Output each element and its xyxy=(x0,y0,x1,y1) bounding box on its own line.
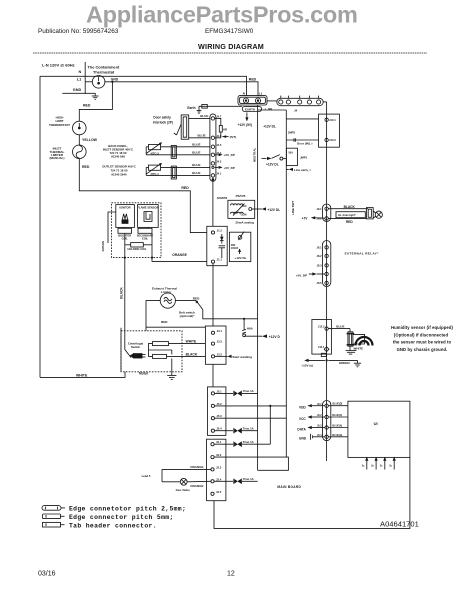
wire GND stub with ground xyxy=(62,93,95,96)
svg-text:RED: RED xyxy=(193,296,200,300)
svg-text:J2.5: J2.5 xyxy=(216,490,222,494)
svg-text:N: N xyxy=(243,91,245,95)
terminal earth box xyxy=(242,106,261,111)
pull-up resistor HR xyxy=(215,118,227,137)
connector J3 box xyxy=(205,326,226,364)
gas valve internal wires xyxy=(125,227,152,257)
svg-text:J10.2: J10.2 xyxy=(329,138,336,142)
svg-text:Publication No: 5995674263: Publication No: 5995674263 xyxy=(38,28,119,35)
svg-text:YELLOW: YELLOW xyxy=(82,138,98,142)
wire orange rail to J1.1 xyxy=(152,258,207,262)
svg-text:EARTH: EARTH xyxy=(245,107,255,111)
svg-text:03/16: 03/16 xyxy=(38,571,56,578)
wire strip to bus xyxy=(323,101,326,103)
start winding resistor xyxy=(153,354,167,358)
svg-text:J2.1: J2.1 xyxy=(216,440,222,444)
header rule xyxy=(33,52,427,54)
svg-text:Limiter: Limiter xyxy=(161,290,172,294)
J1 internal zener and capacitor xyxy=(219,234,225,258)
svg-text:16A: 16A xyxy=(288,150,293,154)
triac on J5.1 xyxy=(215,389,258,396)
arrow (IVT) xyxy=(222,135,236,139)
arrow +7V xyxy=(302,216,325,220)
svg-text:ORANGE: ORANGE xyxy=(172,253,187,257)
svg-text:COM: COM xyxy=(241,214,247,217)
wire high-limit to inlet limiter xyxy=(78,135,80,145)
label HIGH LIMIT THERMOSTAT xyxy=(49,116,70,127)
thermostat (containment) circle xyxy=(92,76,105,89)
svg-text:BLUE: BLUE xyxy=(192,163,200,167)
svg-text:VCC: VCC xyxy=(299,417,306,421)
door safety interlock connector xyxy=(174,115,189,139)
svg-text:GND: GND xyxy=(299,437,307,441)
wire transformer to +12V DL arrow xyxy=(252,207,280,211)
svg-text:BLUE: BLUE xyxy=(200,114,208,118)
svg-text:+12V D: +12V D xyxy=(269,335,281,339)
svg-text:+12V (5V): +12V (5V) xyxy=(238,123,252,127)
UI bottom arrows xyxy=(365,457,396,470)
svg-text:IGNITOR: IGNITOR xyxy=(119,205,130,209)
humidity sensor note text xyxy=(391,325,453,352)
text block outlet sensor xyxy=(102,165,136,177)
svg-text:J3.1: J3.1 xyxy=(217,329,223,333)
wire L1 from thermostat to terminal block xyxy=(105,82,258,96)
label The Containment Thermostat xyxy=(88,65,120,75)
svg-text:N: N xyxy=(79,70,82,74)
svg-text:Thermostat: Thermostat xyxy=(93,69,115,74)
humidity sensor body xyxy=(347,332,365,346)
svg-text:WHITE: WHITE xyxy=(354,346,364,350)
arrow -15V_DP xyxy=(215,166,235,170)
relay box right of J1 xyxy=(229,232,250,262)
svg-text:2x: 2x xyxy=(371,464,374,467)
svg-text:(MANUAL): (MANUAL) xyxy=(50,156,65,160)
svg-text:J3.3: J3.3 xyxy=(217,352,223,356)
text block back panel inlet sensor xyxy=(103,144,134,158)
svg-text:Door (IN)_r: Door (IN)_r xyxy=(297,141,313,145)
svg-text:NEUTRAL: NEUTRAL xyxy=(253,148,257,162)
arrow DATA xyxy=(297,426,325,432)
label BLUE door wires xyxy=(198,114,209,137)
connector J12 box xyxy=(312,320,332,355)
UI arrow labels xyxy=(362,464,393,467)
wire J1.1 to J3 top xyxy=(212,263,214,326)
svg-text:BLACK: BLACK xyxy=(186,352,198,356)
svg-text:J12.2: J12.2 xyxy=(318,324,325,328)
NTC-2 edge connector xyxy=(171,146,176,159)
svg-text:J2.4: J2.4 xyxy=(216,477,222,481)
svg-text:(optional)*: (optional)* xyxy=(180,314,196,318)
svg-text:91340 599: 91340 599 xyxy=(111,154,125,158)
neutral bus vertical xyxy=(257,105,259,470)
svg-text:J8.5: J8.5 xyxy=(317,281,323,285)
legend symbol edge connector 2.5mm xyxy=(42,506,65,511)
high limit thermostat circle xyxy=(73,121,87,135)
svg-text:BLUE(D): BLUE(D) xyxy=(332,403,342,406)
svg-text:2x: 2x xyxy=(362,464,365,467)
holding coil xyxy=(128,243,147,252)
transformer PS box xyxy=(228,200,255,218)
junction dot on L1 wire xyxy=(111,81,113,83)
arrow Line early_r xyxy=(286,168,311,172)
wire red rail inlet limiter to J1.2 xyxy=(79,159,207,233)
inlet thermal limiter circle xyxy=(73,145,87,159)
svg-text:BLUE: BLUE xyxy=(198,134,206,138)
svg-text:+7V: +7V xyxy=(302,216,309,220)
J3 pin labels xyxy=(217,329,223,357)
labels BLUE NTC-1 xyxy=(192,163,200,175)
svg-text:2x: 2x xyxy=(389,464,392,467)
svg-text:ORANGE: ORANGE xyxy=(190,484,203,488)
J1 pin labels xyxy=(217,228,223,261)
svg-text:interlock (2P): interlock (2P) xyxy=(153,120,173,124)
J4 pin labels xyxy=(216,115,222,176)
svg-text:+12V DL: +12V DL xyxy=(267,208,280,212)
svg-text:RED: RED xyxy=(83,104,91,108)
svg-text:HOLDING COIL: HOLDING COIL xyxy=(128,247,147,251)
legend text lines xyxy=(69,506,186,530)
svg-text:25mA analog: 25mA analog xyxy=(235,221,254,225)
drum light label box xyxy=(336,212,365,218)
arrow VCC xyxy=(299,415,325,421)
svg-text:L1: L1 xyxy=(259,91,263,95)
wire black drop to centrifugal switch xyxy=(124,258,126,350)
exhaust thermal limiter circle xyxy=(160,293,175,308)
connector J10 box xyxy=(319,114,340,147)
svg-text:BLUE: BLUE xyxy=(336,324,344,328)
wires NTC-1 to J4 xyxy=(146,167,210,175)
svg-text:RED: RED xyxy=(82,165,90,169)
wire J5.2 to line bus xyxy=(215,405,287,407)
svg-text:the sensor must be wired to: the sensor must be wired to xyxy=(393,340,452,345)
J9 pin labels xyxy=(317,207,323,221)
humidity waves xyxy=(356,337,373,346)
svg-text:WIRING DIAGRAM: WIRING DIAGRAM xyxy=(198,42,264,51)
junction dot mid bus xyxy=(269,405,271,407)
svg-text:Triac 1A: Triac 1A xyxy=(243,477,254,481)
motor winding wires xyxy=(149,344,206,372)
svg-text:BLACK: BLACK xyxy=(120,287,124,299)
wire J9.1 to light xyxy=(328,208,368,210)
svg-text:BLUE(C): BLUE(C) xyxy=(332,414,342,417)
main winding resistor xyxy=(153,342,169,346)
svg-text:DATA: DATA xyxy=(297,427,306,431)
left border wire xyxy=(39,76,41,377)
svg-text:J12.1: J12.1 xyxy=(318,345,325,349)
svg-text:GREEN: GREEN xyxy=(339,361,350,365)
booster coil xyxy=(118,228,132,240)
wire limiter left to J3.1 row xyxy=(146,301,205,331)
svg-text:VDD: VDD xyxy=(299,406,306,410)
svg-text:WHITE: WHITE xyxy=(76,373,88,377)
wire lamp to J2.4 xyxy=(187,480,211,483)
svg-text:J4.1: J4.1 xyxy=(216,172,222,176)
svg-text:5V0: 5V0 xyxy=(242,205,247,208)
svg-text:J3.2: J3.2 xyxy=(217,340,223,344)
light connector xyxy=(366,208,373,219)
svg-text:J4: J4 xyxy=(294,109,298,113)
ground under humidity sensor xyxy=(346,346,357,354)
svg-text:RED: RED xyxy=(346,220,353,224)
svg-text:WHITE: WHITE xyxy=(186,340,197,344)
J12 pin labels xyxy=(318,324,325,349)
labels BLUE NTC-2 xyxy=(192,143,200,155)
arrow +12V D xyxy=(262,334,267,338)
connector J4 column xyxy=(210,114,216,181)
fuse H6A xyxy=(242,319,246,337)
svg-text:Start winding: Start winding xyxy=(232,355,252,359)
svg-text:J9.1: J9.1 xyxy=(317,207,323,211)
NTC-1 thermistor xyxy=(146,163,162,176)
svg-text:+5V_DP: +5V_DP xyxy=(224,166,235,170)
svg-text:JMP2: JMP2 xyxy=(288,130,296,134)
svg-text:Triac 1A: Triac 1A xyxy=(243,440,254,444)
svg-text:+5V_DP: +5V_DP xyxy=(296,273,307,277)
5-pin terminal strip xyxy=(277,96,323,106)
svg-text:J9.2: J9.2 xyxy=(317,217,323,221)
svg-text:Humidity sensor (if equipped): Humidity sensor (if equipped) xyxy=(391,325,453,330)
switch to JMP1 xyxy=(262,155,287,161)
light bulb xyxy=(373,211,382,218)
svg-text:EXTERNAL RELAY*: EXTERNAL RELAY* xyxy=(345,252,380,256)
svg-text:THERMOSTAT: THERMOSTAT xyxy=(49,123,70,127)
junction dot under J12 xyxy=(325,359,327,361)
spark electrode wire xyxy=(108,212,116,243)
arrow +5V_DP xyxy=(215,153,235,157)
triac on J2.4 xyxy=(214,477,258,484)
J2 pin labels xyxy=(216,440,222,494)
svg-text:AppliancePartsPros.com: AppliancePartsPros.com xyxy=(86,2,358,28)
label Exhaust Thermal Limiter xyxy=(152,286,177,294)
svg-text:400/050: 400/050 xyxy=(217,196,228,200)
J10 pin labels xyxy=(329,118,336,142)
arrow Start winding xyxy=(215,355,253,359)
UI box xyxy=(348,401,410,457)
svg-text:J1.1: J1.1 xyxy=(217,258,223,262)
arrow +5V_DP J8.4 xyxy=(296,272,325,277)
svg-text:LINE SWT: LINE SWT xyxy=(291,201,295,215)
wire bus to J10.2 with break xyxy=(286,138,318,141)
svg-text:Tab header connector.: Tab header connector. xyxy=(69,522,157,529)
wire earth line to terminal earth box xyxy=(199,105,242,107)
ground symbol at power cord xyxy=(92,96,99,99)
connector J8 xyxy=(323,241,331,287)
svg-text:Door safety: Door safety xyxy=(153,115,171,119)
wire J4.1 down to J1 xyxy=(212,177,215,226)
svg-text:BLUE: BLUE xyxy=(192,143,200,147)
junction dots on gas valve bottom xyxy=(124,257,153,259)
svg-text:J4.3: J4.3 xyxy=(216,160,222,164)
svg-text:91340 2940: 91340 2940 xyxy=(111,173,127,177)
svg-text:SPARK: SPARK xyxy=(101,240,105,251)
svg-text:PS/5V6: PS/5V6 xyxy=(236,194,246,198)
earth label and symbol xyxy=(187,106,201,113)
svg-text:100VA: 100VA xyxy=(231,247,239,250)
svg-text:J8.1: J8.1 xyxy=(317,245,323,249)
triac on J2.1 xyxy=(214,440,270,447)
triac on J5.4 xyxy=(215,427,258,434)
wire belt switch to neutral bus xyxy=(203,310,258,319)
motor box left edge solid xyxy=(120,328,122,372)
labels BLUE on UI wires xyxy=(332,403,342,437)
svg-text:2x: 2x xyxy=(380,464,383,467)
svg-text:MAIN BOARD: MAIN BOARD xyxy=(277,485,301,489)
svg-text:J2.2: J2.2 xyxy=(216,453,222,457)
svg-text:Gas Valve: Gas Valve xyxy=(176,488,191,492)
svg-text:A04641701: A04641701 xyxy=(380,520,419,529)
gas valve lamp xyxy=(180,478,187,485)
svg-text:L1: L1 xyxy=(77,78,81,82)
HS glyph under J12.1 xyxy=(321,353,326,356)
wire bus to J10.1 xyxy=(286,118,318,120)
wire J12.2 to humidity sensor xyxy=(328,329,350,332)
svg-text:EFMG3417SIW0: EFMG3417SIW0 xyxy=(205,28,254,35)
label Belt switch (optional) xyxy=(179,310,195,318)
GND battery symbol xyxy=(299,434,325,441)
wire terminal block to strip xyxy=(267,100,277,102)
svg-text:(IVT): (IVT) xyxy=(230,135,237,139)
junction dot fuse tap xyxy=(243,318,245,320)
wire GREEN to ground xyxy=(328,360,361,366)
svg-text:+12V DL: +12V DL xyxy=(263,125,276,129)
J8 pin labels xyxy=(317,245,323,285)
gas valve assembly dashed box xyxy=(112,203,162,258)
wire J2.3 orange to gas valve xyxy=(162,469,211,481)
svg-text:GND: GND xyxy=(73,88,82,92)
svg-text:UI: UI xyxy=(374,421,378,426)
wires J6 to UI box xyxy=(328,406,348,437)
belt switch xyxy=(196,301,203,310)
centrifugal switch xyxy=(125,350,146,359)
terminal block xyxy=(238,96,267,105)
svg-text:J5.4: J5.4 xyxy=(216,427,222,431)
ignitor sub-box xyxy=(116,205,135,228)
svg-text:JMP1: JMP1 xyxy=(300,155,308,159)
svg-text:12: 12 xyxy=(227,571,235,578)
NTC-2 thermistor xyxy=(146,142,162,155)
svg-text:BLUE: BLUE xyxy=(192,151,200,155)
flame sensor sub-box xyxy=(137,205,158,228)
power entry vertical line xyxy=(84,62,86,94)
NTC-1 edge connector xyxy=(171,166,176,179)
svg-text:J4.5: J4.5 xyxy=(216,143,222,147)
svg-text:COIL: COIL xyxy=(142,237,149,241)
wire junction down to high-limit branch xyxy=(79,82,112,121)
svg-text:Switch: Switch xyxy=(131,345,141,349)
svg-text:Edge connetotor pitch 2,5mm;: Edge connetotor pitch 2,5mm; xyxy=(69,506,186,513)
svg-text:+5V_DP: +5V_DP xyxy=(224,153,235,157)
terminal labels N L1 xyxy=(243,91,263,95)
J4 pins xyxy=(211,117,214,177)
arrow down +12V (5V) xyxy=(238,112,252,126)
svg-text:Earth: Earth xyxy=(187,106,195,110)
svg-text:+12V DL: +12V DL xyxy=(235,256,247,260)
svg-text:Triac 1A: Triac 1A xyxy=(243,389,254,393)
svg-text:Motor: Motor xyxy=(139,371,149,375)
svg-text:FLAME SENSOR: FLAME SENSOR xyxy=(137,205,158,209)
svg-text:+15V (y): +15V (y) xyxy=(301,363,313,367)
arrow VDD xyxy=(299,404,325,410)
wire L1 into thermostat xyxy=(85,81,92,83)
svg-text:J5.3: J5.3 xyxy=(216,414,222,418)
svg-text:J5.2: J5.2 xyxy=(216,402,222,406)
J5 pin labels xyxy=(216,389,222,430)
wire door interlock to J4 pins xyxy=(189,118,210,137)
svg-text:(Optional) If disconnected: (Optional) If disconnected xyxy=(394,332,449,337)
svg-text:Edge connector pitch 5mm;: Edge connector pitch 5mm; xyxy=(69,514,174,521)
connector J9 xyxy=(323,204,331,222)
secondary coil xyxy=(137,228,154,240)
svg-text:BLUE: BLUE xyxy=(192,171,200,175)
svg-text:Line early_r: Line early_r xyxy=(294,168,312,172)
mid bus vertical J5.2 to J2.1 xyxy=(269,406,271,444)
wire N: left border top to terminal N xyxy=(40,76,247,95)
svg-text:BLUE(A): BLUE(A) xyxy=(332,425,342,428)
legend symbol tab header connector xyxy=(43,522,65,527)
wire J2 bottom to bottom rail xyxy=(214,457,410,528)
connector J6 xyxy=(323,401,331,441)
svg-text:J1.2: J1.2 xyxy=(217,228,223,232)
wire J2.2 to right bend xyxy=(214,457,288,470)
wire fuse to +12V D arrow xyxy=(246,335,263,337)
svg-text:ORANGE: ORANGE xyxy=(190,465,203,469)
wires NTC-2 to J4 xyxy=(146,147,210,155)
labels above transformer xyxy=(217,194,246,200)
wire J3 bottom to J5 top xyxy=(212,364,214,387)
legend symbol edge connector 5mm xyxy=(43,514,65,519)
main right bus vertical xyxy=(326,102,328,461)
svg-text:J10.1: J10.1 xyxy=(329,118,336,122)
label Centrifugal Switch xyxy=(128,341,143,349)
svg-text:GND by chassis ground.: GND by chassis ground. xyxy=(397,347,448,352)
bottom rail wire white xyxy=(40,372,125,378)
label INLET THERMAL LIMITER (MANUAL) xyxy=(50,147,65,161)
ground symbol under motor xyxy=(167,372,176,380)
connector J1 box xyxy=(207,226,227,265)
svg-text:RED: RED xyxy=(249,78,257,82)
connector J2 box xyxy=(207,439,226,501)
wire J9.2 return xyxy=(328,217,366,219)
arrow +15V left xyxy=(301,359,325,368)
svg-text:Int. drum light*: Int. drum light* xyxy=(338,214,356,217)
svg-text:RED: RED xyxy=(181,186,189,190)
svg-text:RED: RED xyxy=(161,320,168,324)
svg-text:J8.2: J8.2 xyxy=(317,254,323,258)
line bus vertical xyxy=(258,110,287,457)
connector J5 box xyxy=(208,387,226,436)
label Door safety interlock (2P) xyxy=(153,115,173,124)
svg-text:+12V DL: +12V DL xyxy=(266,162,279,166)
svg-text:Lead 5: Lead 5 xyxy=(142,474,151,478)
wire J5.3 to line bus xyxy=(215,417,287,419)
svg-text:HR: HR xyxy=(223,128,227,132)
earth line connector glyph xyxy=(202,105,208,109)
svg-text:Triac 1A: Triac 1A xyxy=(243,427,254,431)
J6 pin labels xyxy=(317,403,322,437)
svg-text:L-N 120V @ 60Hz: L-N 120V @ 60Hz xyxy=(42,63,75,68)
JMP1 box xyxy=(286,148,297,165)
svg-text:BLUE(G): BLUE(G) xyxy=(332,434,342,437)
svg-text:J8.3: J8.3 xyxy=(317,263,323,267)
motor dashed box xyxy=(121,331,182,372)
wire limiter right to belt switch xyxy=(175,300,196,302)
svg-text:J2.3: J2.3 xyxy=(216,465,222,469)
svg-text:J5.1: J5.1 xyxy=(216,389,222,393)
svg-text:H6A: H6A xyxy=(247,327,254,331)
